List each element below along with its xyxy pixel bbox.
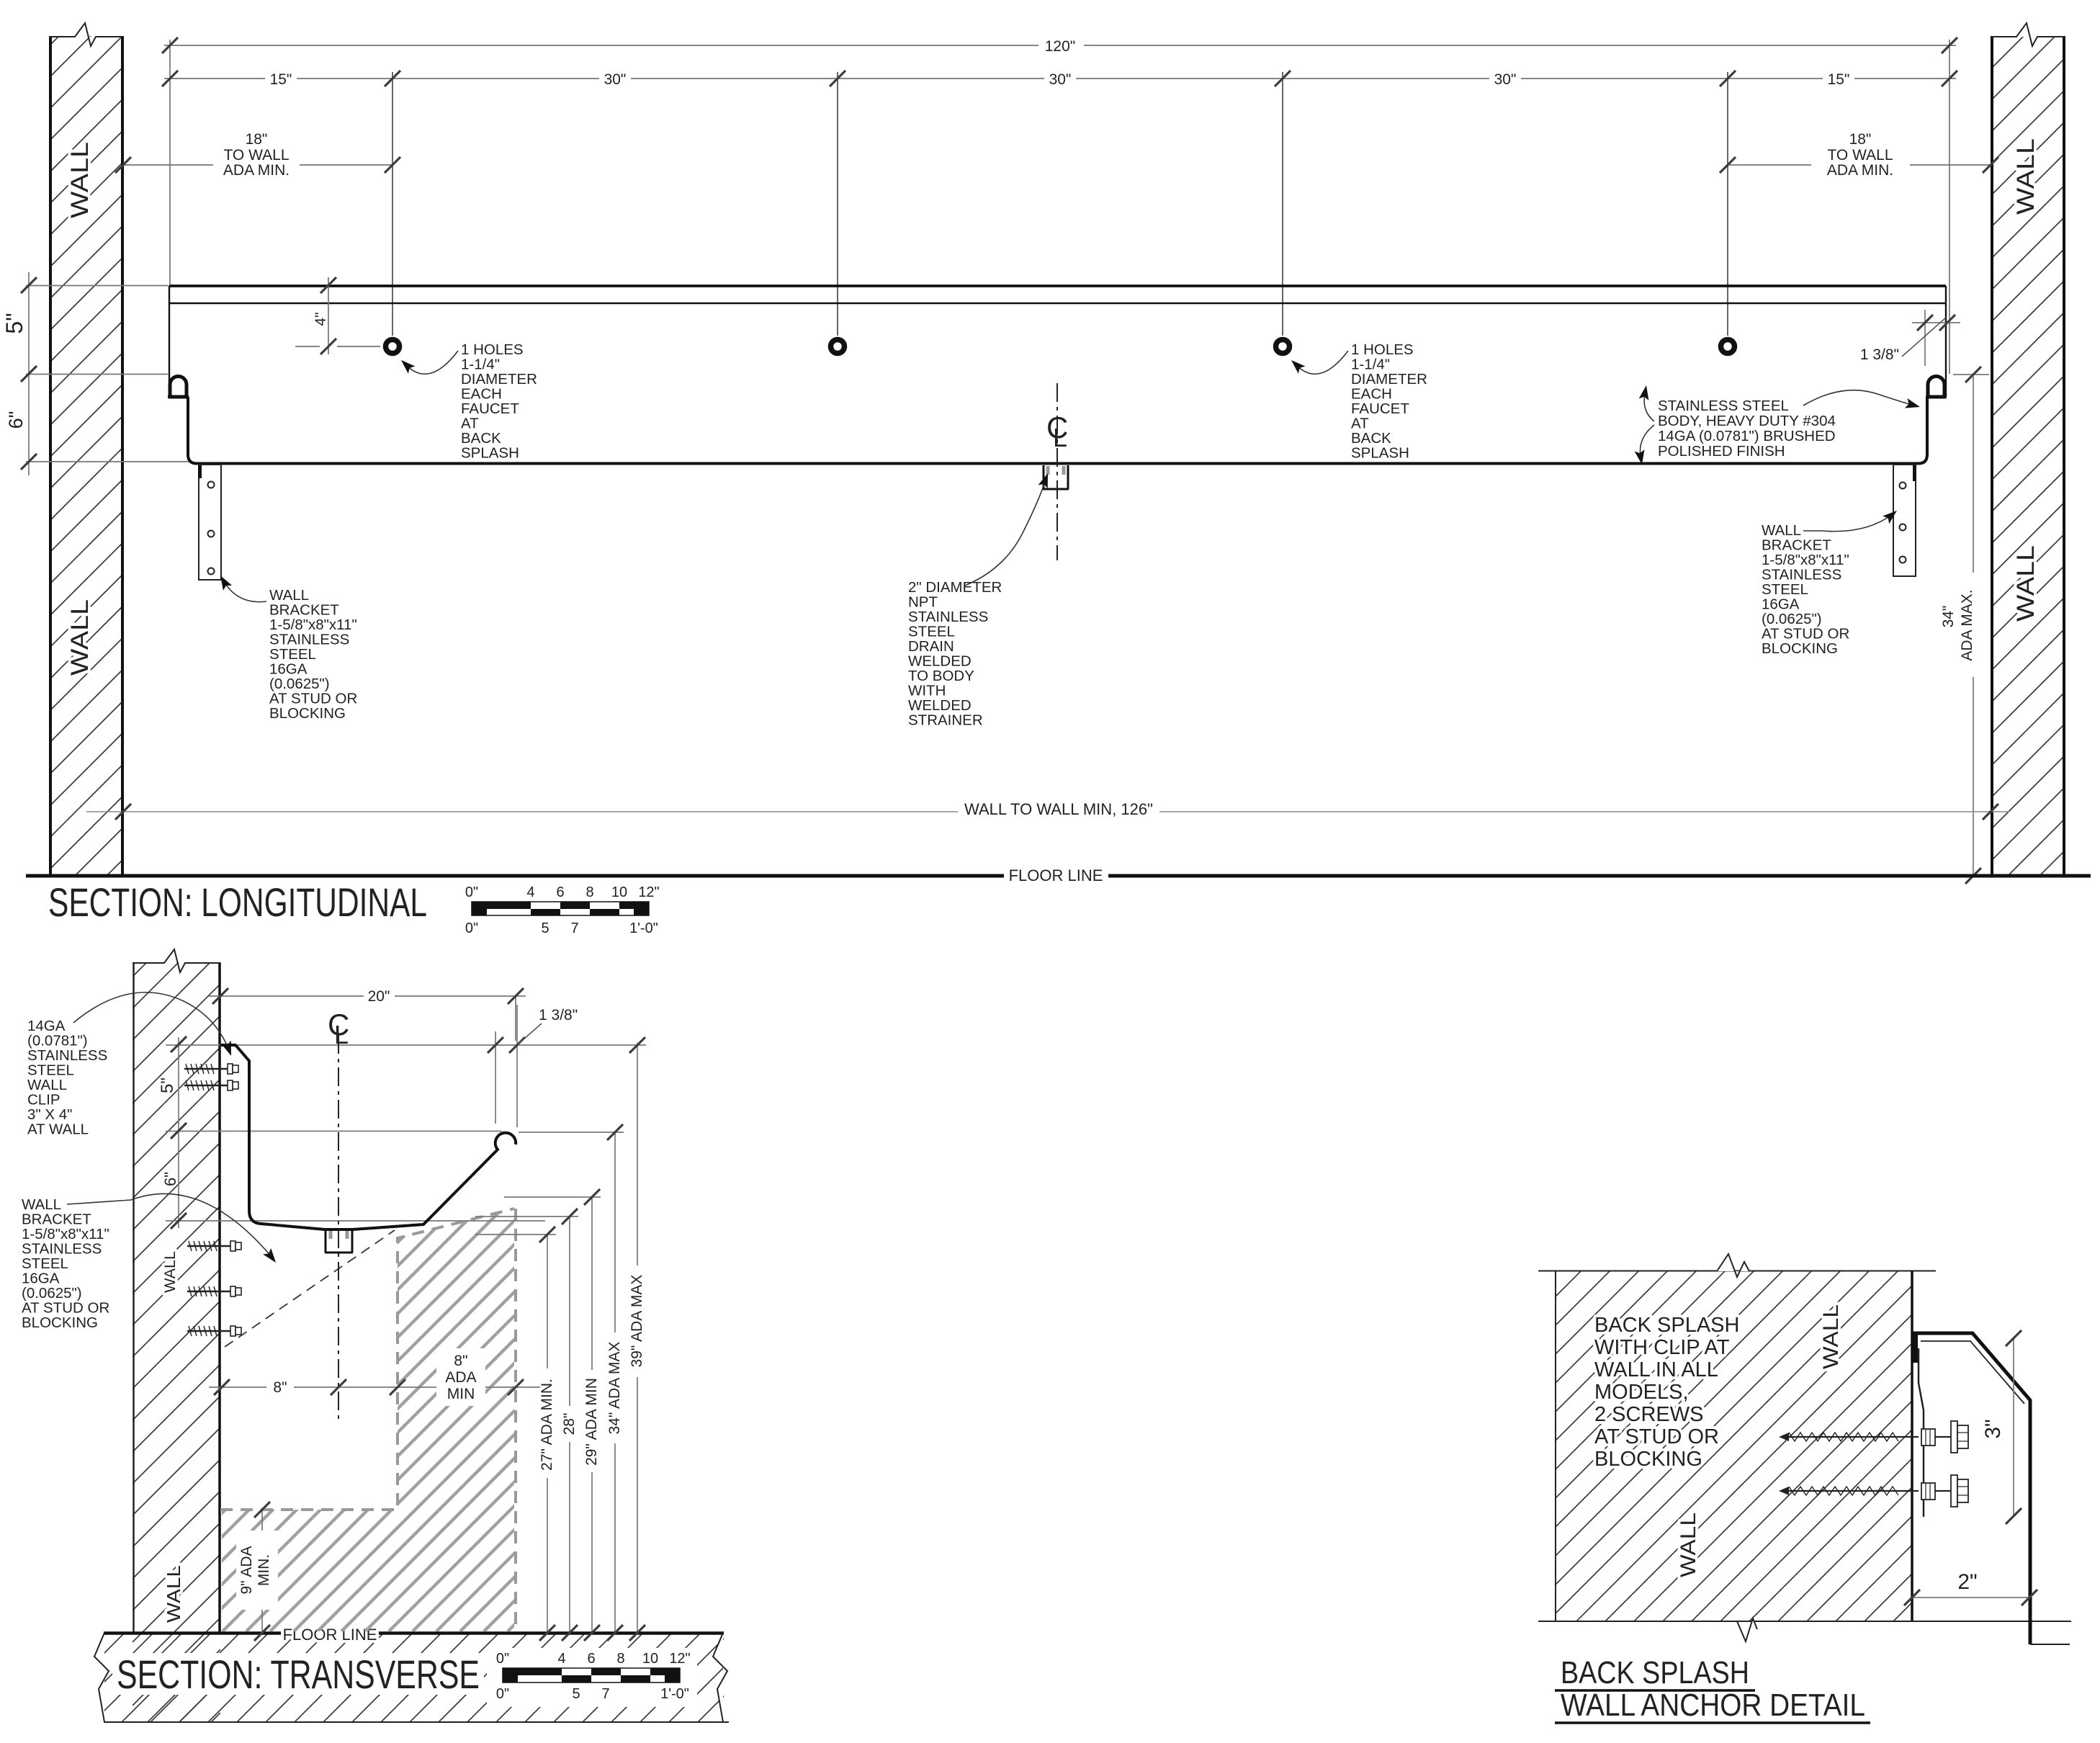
- svg-text:6": 6": [5, 411, 27, 429]
- svg-text:4": 4": [313, 312, 329, 326]
- svg-text:WALL: WALL: [1677, 1513, 1700, 1577]
- svg-text:6": 6": [161, 1172, 179, 1186]
- svg-text:18": 18": [246, 131, 268, 148]
- svg-text:BACK SPLASH: BACK SPLASH: [1594, 1314, 1739, 1337]
- svg-text:ADA MAX.: ADA MAX.: [1959, 589, 1975, 660]
- svg-text:12": 12": [669, 1651, 690, 1667]
- svg-text:L: L: [334, 1020, 349, 1049]
- svg-text:BODY, HEAVY DUTY #304: BODY, HEAVY DUTY #304: [1658, 413, 1836, 429]
- svg-text:18": 18": [1849, 131, 1872, 148]
- svg-text:0": 0": [465, 884, 478, 900]
- svg-text:10: 10: [642, 1651, 658, 1667]
- svg-text:30": 30": [604, 71, 627, 88]
- svg-text:1'-0": 1'-0": [629, 920, 658, 936]
- svg-text:ADA MIN.: ADA MIN.: [1827, 162, 1893, 179]
- svg-text:29" ADA MIN: 29" ADA MIN: [583, 1378, 600, 1466]
- svg-text:27" ADA MIN.: 27" ADA MIN.: [539, 1379, 555, 1471]
- svg-text:MIN.: MIN.: [256, 1554, 272, 1586]
- svg-text:WITH CLIP AT: WITH CLIP AT: [1594, 1336, 1730, 1359]
- svg-text:SECTION: LONGITUDINAL: SECTION: LONGITUDINAL: [48, 879, 427, 925]
- svg-text:WALL: WALL: [1819, 1304, 1843, 1369]
- svg-text:10: 10: [611, 884, 627, 900]
- svg-text:5": 5": [1, 313, 27, 333]
- svg-text:2": 2": [1957, 1570, 1977, 1594]
- svg-text:ADA MIN.: ADA MIN.: [223, 162, 290, 179]
- svg-text:BACK SPLASH: BACK SPLASH: [1561, 1655, 1749, 1690]
- svg-text:14GA (0.0781") BRUSHED: 14GA (0.0781") BRUSHED: [1658, 428, 1836, 444]
- svg-text:0": 0": [496, 1686, 509, 1702]
- svg-text:30": 30": [1049, 71, 1072, 88]
- svg-text:8: 8: [616, 1651, 624, 1667]
- svg-text:AT WALL: AT WALL: [27, 1121, 89, 1138]
- svg-text:SPLASH: SPLASH: [461, 445, 519, 462]
- svg-text:12": 12": [638, 884, 659, 900]
- svg-text:34": 34": [1940, 606, 1957, 628]
- svg-text:1'-0": 1'-0": [660, 1686, 689, 1702]
- svg-text:WALL: WALL: [163, 1565, 184, 1623]
- svg-text:POLISHED FINISH: POLISHED FINISH: [1658, 443, 1785, 460]
- svg-text:5: 5: [541, 920, 549, 936]
- svg-text:15": 15": [270, 71, 292, 88]
- svg-text:4: 4: [526, 884, 534, 900]
- svg-text:BLOCKING: BLOCKING: [1762, 640, 1838, 657]
- svg-text:20": 20": [368, 988, 390, 1005]
- svg-text:2 SCREWS: 2 SCREWS: [1594, 1403, 1703, 1426]
- svg-text:TO WALL: TO WALL: [1827, 147, 1893, 163]
- svg-text:BLOCKING: BLOCKING: [1594, 1448, 1702, 1471]
- svg-text:BLOCKING: BLOCKING: [269, 705, 346, 722]
- svg-text:6: 6: [587, 1651, 595, 1667]
- svg-text:0": 0": [496, 1651, 509, 1667]
- svg-text:TO WALL: TO WALL: [223, 147, 289, 163]
- svg-text:5": 5": [158, 1077, 177, 1093]
- svg-text:WALL: WALL: [2012, 545, 2040, 622]
- svg-text:7: 7: [570, 920, 578, 936]
- svg-text:FLOOR LINE: FLOOR LINE: [1009, 866, 1103, 884]
- svg-text:3": 3": [1981, 1419, 2005, 1438]
- svg-text:WALL: WALL: [66, 142, 94, 218]
- svg-text:120": 120": [1045, 38, 1076, 55]
- svg-text:WALL: WALL: [66, 599, 94, 676]
- svg-text:BLOCKING: BLOCKING: [22, 1314, 98, 1331]
- svg-text:8": 8": [273, 1379, 287, 1396]
- svg-text:5: 5: [572, 1686, 580, 1702]
- svg-text:AT STUD OR: AT STUD OR: [1594, 1425, 1719, 1448]
- svg-text:6: 6: [556, 884, 564, 900]
- svg-text:STRAINER: STRAINER: [908, 712, 983, 729]
- svg-text:4: 4: [557, 1651, 565, 1667]
- svg-text:1 3/8": 1 3/8": [1860, 346, 1899, 363]
- svg-text:L: L: [1053, 423, 1067, 452]
- svg-text:WALL TO WALL MIN, 126": WALL TO WALL MIN, 126": [964, 800, 1153, 818]
- svg-text:8": 8": [454, 1353, 467, 1369]
- svg-text:34" ADA MAX: 34" ADA MAX: [606, 1342, 623, 1435]
- svg-text:30": 30": [1494, 71, 1517, 88]
- svg-text:ADA: ADA: [445, 1369, 476, 1386]
- svg-text:1 3/8": 1 3/8": [539, 1007, 578, 1023]
- svg-text:SPLASH: SPLASH: [1351, 445, 1409, 462]
- svg-text:MIN: MIN: [447, 1386, 475, 1402]
- svg-text:STAINLESS STEEL: STAINLESS STEEL: [1658, 398, 1789, 414]
- svg-text:39" ADA MAX: 39" ADA MAX: [629, 1275, 645, 1368]
- svg-text:0": 0": [465, 920, 478, 936]
- svg-text:9" ADA: 9" ADA: [238, 1546, 255, 1595]
- svg-text:SECTION: TRANSVERSE: SECTION: TRANSVERSE: [117, 1652, 480, 1697]
- svg-text:WALL IN ALL: WALL IN ALL: [1594, 1358, 1718, 1381]
- svg-text:15": 15": [1828, 71, 1850, 88]
- svg-text:7: 7: [601, 1686, 609, 1702]
- svg-text:WALL: WALL: [162, 1251, 179, 1293]
- svg-text:WALL: WALL: [2012, 138, 2040, 215]
- svg-text:WALL ANCHOR DETAIL: WALL ANCHOR DETAIL: [1561, 1688, 1865, 1723]
- svg-text:8: 8: [585, 884, 593, 900]
- svg-text:MODELS,: MODELS,: [1594, 1381, 1689, 1404]
- svg-text:28": 28": [561, 1413, 578, 1435]
